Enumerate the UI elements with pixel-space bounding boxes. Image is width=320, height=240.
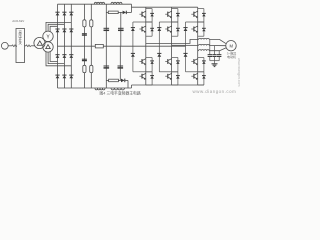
ground symbol <box>212 64 218 67</box>
rectifier leg 1 wire <box>57 4 59 88</box>
DC link capacitor C4 <box>118 28 124 30</box>
DC link column 2 lower wire <box>119 46 121 80</box>
freewheel diode of Q2C <box>198 22 206 36</box>
IGBT Q2B <box>165 26 171 33</box>
fuse FU2 <box>90 20 93 27</box>
clamp diode column leg C bottom stub <box>186 71 198 73</box>
IGBT Q1C <box>191 11 197 18</box>
label AC6-6kV <box>12 19 24 23</box>
motor M circle <box>226 41 236 51</box>
wire Y phase 3 to upper bridge leg 1 <box>50 26 57 32</box>
DC choke L1 (top bus) <box>94 2 104 4</box>
filter capacitor C9 <box>217 55 221 61</box>
wire source to squiggle <box>8 45 12 47</box>
output choke L7 (phase C) <box>199 50 210 51</box>
svg-text:www.diangon.com: www.diangon.com <box>237 58 240 86</box>
fuse FU4 <box>90 65 93 72</box>
right edge vertical watermark <box>237 58 241 86</box>
inverter leg A main wire <box>145 7 147 85</box>
wire delta phase 3 to lower bridge leg 1 <box>50 51 57 61</box>
damping diode return wire <box>127 80 129 88</box>
DC link column 1 lower wire <box>105 46 107 88</box>
IGBT Q1B <box>165 11 171 18</box>
freewheel diode of Q2A <box>146 22 154 36</box>
rectifier leg 3 wire <box>70 4 72 88</box>
inverter leg B main wire <box>171 7 173 85</box>
wire squiggle to transformer <box>31 45 35 47</box>
filter capacitor C7 <box>208 55 212 61</box>
DC link capacitor C3 <box>104 28 110 30</box>
svg-text:关: 关 <box>19 40 23 45</box>
IGBT Q1A <box>139 11 145 18</box>
freewheel diode of Q1B <box>172 9 180 22</box>
filter common bus <box>210 60 219 62</box>
wire Y phase 2 to upper bridge leg 2 <box>48 24 64 31</box>
clamp diode VD-A2 <box>131 53 135 56</box>
damping resistor R1 <box>106 11 122 14</box>
freewheel diode of Q3B <box>172 58 180 72</box>
DC choke L4 (bottom bus) <box>111 88 125 90</box>
motor label line 1 <box>227 51 236 56</box>
rectifier leg 2 wire <box>63 4 65 88</box>
positive DC bus (top) <box>58 3 132 5</box>
wire squiggle to cabinet box <box>16 45 18 47</box>
DC link capacitor C6 <box>118 66 124 68</box>
DC link column 1 upper wire <box>105 4 107 46</box>
svg-text:图4 三电平变频器主电路: 图4 三电平变频器主电路 <box>100 91 141 96</box>
output choke L6 (phase B) <box>199 44 210 45</box>
cabinet vertical text <box>19 30 23 45</box>
IGBT Q4A <box>139 73 145 80</box>
phase C output stub <box>197 50 200 52</box>
DC link capacitor C5 <box>104 66 110 68</box>
neutral mid bus left of resistor <box>58 45 96 47</box>
incoming switch cabinet box <box>16 29 25 63</box>
inverter negative bus <box>132 84 204 86</box>
clamp diode column leg B wire <box>158 22 160 72</box>
clamp diode VD-C1 <box>183 28 187 31</box>
DC choke L3 (bottom bus) <box>95 88 105 90</box>
freewheel diode of Q3C <box>198 58 206 72</box>
freewheel diode of Q1C <box>198 9 206 22</box>
figure caption <box>100 91 141 96</box>
diode VD1 (upper bridge top leg 1) <box>55 12 59 15</box>
wire Y phase 1 to upper bridge leg 3 <box>46 22 71 32</box>
transformer secondary winding delta <box>43 42 53 52</box>
filter capacitor C8 <box>212 55 216 61</box>
wire cabinet to squiggle 2 <box>25 45 27 47</box>
phase C wire to motor <box>209 48 226 51</box>
phase A wire to motor <box>209 40 226 44</box>
top bus step down at inverter <box>131 4 133 12</box>
motor label line 2 <box>227 54 236 59</box>
freewheel diode of Q2B <box>172 22 180 36</box>
diode VD10 (lower bridge bottom leg 1) <box>55 75 59 78</box>
clamp diode column leg A bottom stub <box>133 71 146 73</box>
diode VD3 (upper bridge top leg 3) <box>69 12 73 15</box>
DC choke L2 (top bus) <box>111 2 122 4</box>
fuse column 2 lower wire <box>90 46 92 88</box>
phase A output wire <box>146 40 199 44</box>
DC link column 2 upper wire <box>120 12 122 46</box>
diode VD12 (lower bridge bottom leg 3) <box>69 75 73 78</box>
flexible-link squiggle 1 <box>12 45 17 47</box>
clamp diode column leg A wire <box>132 22 134 72</box>
bottom bus step up at inverter <box>131 85 133 88</box>
fuse column 2 upper wire <box>90 4 92 46</box>
clamp diode column leg C top stub <box>186 21 198 23</box>
diode VD9 (lower bridge top leg 3) <box>69 55 73 58</box>
clamp diode column leg B top stub <box>159 21 171 23</box>
diode VD11 (lower bridge bottom leg 2) <box>62 75 66 78</box>
filter capacitor C9 branch <box>218 51 220 55</box>
freewheel diode of Q1A <box>146 9 154 22</box>
diode VD5 (upper bridge bottom leg 2) <box>62 29 66 32</box>
transformer primary winding (delta) <box>34 37 45 48</box>
IGBT Q3B <box>165 59 171 66</box>
diode VD7 (lower bridge top leg 1) <box>55 55 59 58</box>
freewheel diode of Q4A <box>146 72 154 85</box>
freewheel diode of Q4B <box>172 72 180 85</box>
damping diode VD14 <box>123 11 132 15</box>
filter capacitor C7 branch <box>209 40 211 55</box>
AC supply source G1 <box>1 42 8 49</box>
clamp diode VD-B2 <box>157 53 161 56</box>
clamp diode column leg A top stub <box>133 21 146 23</box>
clamp diode column leg B bottom stub <box>159 71 171 73</box>
freewheel diode of Q4C <box>198 72 206 85</box>
diode VD8 (lower bridge top leg 2) <box>62 55 66 58</box>
IGBT Q2A <box>139 26 145 33</box>
scan background <box>0 0 240 97</box>
svg-text:www.diangon.com: www.diangon.com <box>193 89 237 94</box>
inverter leg C main wire <box>197 7 199 85</box>
svg-text:AC6-6kV: AC6-6kV <box>12 19 24 23</box>
damping diode VD13 <box>120 79 128 83</box>
inverter positive bus <box>132 6 198 8</box>
IGBT Q3C <box>191 59 197 66</box>
IGBT Q4B <box>165 73 171 80</box>
fuse column 1 lower wire <box>83 46 85 88</box>
phase B wire to motor <box>209 45 226 47</box>
snubber capacitor C1 <box>82 34 87 35</box>
clamp diode VD-C2 <box>183 53 187 56</box>
transformer secondary winding Y <box>43 31 53 41</box>
phase B output wire <box>172 44 199 46</box>
IGBT Q2C <box>191 26 197 33</box>
diode VD4 (upper bridge bottom leg 1) <box>55 29 59 32</box>
fuse FU3 <box>83 65 86 72</box>
fuse column 1 upper wire <box>83 4 85 46</box>
neutral series resistor R3 <box>95 44 103 48</box>
negative DC bus (bottom) <box>58 87 132 89</box>
svg-text:电动机: 电动机 <box>227 54 236 59</box>
fuse FU1 <box>83 20 86 27</box>
neutral mid bus right of resistor <box>103 45 185 47</box>
watermark www.diangon.com <box>193 89 237 94</box>
diode VD6 (upper bridge bottom leg 3) <box>69 29 73 32</box>
damping resistor R2 <box>106 79 120 82</box>
flexible-link squiggle 2 <box>26 45 31 47</box>
IGBT Q4C <box>191 73 197 80</box>
svg-text:M: M <box>229 43 233 48</box>
clamp diode column leg C wire <box>185 22 187 72</box>
snubber capacitor C2 <box>82 59 87 60</box>
ground stem <box>214 61 216 64</box>
diode VD2 (upper bridge top leg 2) <box>62 12 66 15</box>
wire delta phase 2 to lower bridge leg 2 <box>48 52 64 64</box>
freewheel diode of Q3A <box>146 58 154 72</box>
clamp diode VD-B1 <box>157 28 161 31</box>
clamp diode VD-A1 <box>131 28 135 31</box>
output choke L5 (phase A) <box>199 38 210 39</box>
IGBT Q3A <box>139 59 145 66</box>
filter capacitor C8 branch <box>214 46 216 55</box>
wire delta phase 1 to lower bridge leg 3 <box>46 51 71 66</box>
